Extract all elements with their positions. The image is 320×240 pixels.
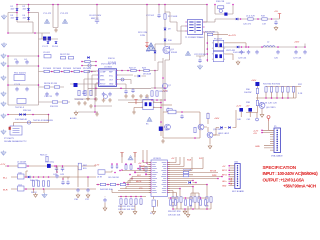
junction: [117, 184, 119, 186]
svg-text:+5V: +5V: [253, 133, 257, 135]
svg-text:D8 4148: D8 4148: [143, 74, 152, 76]
svg-text:+56V: +56V: [251, 80, 257, 82]
ground earth: [1, 113, 6, 118]
junction: [145, 174, 147, 176]
wire bottom rail: [173, 202, 211, 209]
resistor R30b: [256, 100, 258, 105]
svg-text:C10 C11: C10 C11: [44, 96, 53, 98]
junction: [7, 32, 9, 34]
ground earth left: [1, 14, 6, 19]
junction: [160, 102, 162, 104]
pin: [150, 164, 151, 165]
wire ladder left: [256, 86, 258, 113]
power +5V flag: [278, 14, 281, 19]
junction: [81, 71, 83, 73]
pin: [167, 170, 168, 171]
resistor R33: [276, 87, 278, 92]
junction: [245, 46, 247, 48]
capacitor C30: [180, 114, 183, 119]
inductor L4: [168, 110, 176, 114]
wire y112: [78, 111, 98, 113]
junction: [195, 182, 197, 184]
cn2 pin stubs: [229, 166, 235, 186]
wire group B top: [168, 197, 178, 199]
resistor R24: [151, 91, 153, 96]
ground small k: [145, 94, 149, 98]
pin: [116, 79, 117, 80]
svg-text:4.7K: 4.7K: [205, 206, 209, 208]
resistor R57: [180, 197, 182, 202]
wire: [187, 206, 189, 213]
wire secondary return: [204, 32, 206, 56]
svg-text:4007: 4007: [11, 8, 15, 10]
ground small b: [83, 101, 87, 105]
resistor R20: [207, 33, 212, 35]
resistor R47: [183, 171, 188, 173]
thermistor TH1: [17, 99, 26, 104]
wire: [26, 171, 28, 177]
mcu left pin wires: [96, 163, 151, 193]
svg-text:R19: R19: [261, 16, 266, 18]
wire opto right: [225, 43, 246, 60]
junction: [261, 46, 263, 48]
wire grid rung2: [8, 65, 39, 67]
pin: [203, 26, 204, 27]
ground open audio2: [76, 194, 80, 198]
junction: [131, 178, 133, 180]
resistor R13: [78, 90, 80, 95]
capacitor C14: [108, 92, 111, 97]
flag diamond: [256, 118, 259, 121]
junction: [7, 165, 9, 167]
svg-text:R20 FUSE: R20 FUSE: [205, 32, 216, 34]
pin: [167, 162, 168, 163]
junction: [179, 188, 181, 190]
svg-text:+12V: +12V: [236, 106, 242, 108]
junction: [33, 188, 35, 190]
junction: [81, 61, 83, 63]
pin: [167, 172, 168, 173]
resistor R19: [262, 18, 267, 20]
junction: [158, 4, 160, 6]
wire: [134, 75, 146, 77]
svg-text:+56V/ 90mA *4CH: +56V/ 90mA *4CH: [283, 183, 316, 188]
svg-text:Vref COMP VFB: Vref COMP VFB: [101, 63, 117, 66]
wire group C top: [183, 197, 193, 199]
svg-text:R50 R51 R52 R53: R50 R51 R52 R53: [118, 206, 136, 208]
svg-text:R17 100K: R17 100K: [168, 16, 178, 18]
ground column earths: [1, 42, 6, 47]
wire cn1 power drop: [269, 121, 275, 130]
junction: [120, 196, 122, 198]
capacitor C42: [56, 166, 58, 168]
resistor R53: [135, 199, 137, 204]
resistor R63 above rail: [46, 156, 48, 161]
svg-text:D11: D11: [146, 51, 151, 53]
junction: [51, 71, 53, 73]
wire aux winding: [155, 26, 186, 61]
junction: [125, 163, 127, 165]
thermistor TH2: [27, 121, 30, 124]
svg-text:C19: C19: [262, 24, 267, 26]
svg-text:TH2 5D-9 DEGAUSS: TH2 5D-9 DEGAUSS: [33, 119, 53, 122]
ground earth: [1, 101, 6, 106]
chassis cap cluster: [196, 56, 205, 58]
capacitor C23: [240, 50, 243, 55]
junction: [125, 196, 127, 198]
junction: [119, 170, 121, 172]
diode D7: [87, 56, 89, 59]
junction: [130, 196, 132, 198]
wire clamp vertical: [164, 5, 166, 47]
capacitor CX2: [48, 37, 51, 41]
svg-text:+5V: +5V: [138, 163, 142, 165]
svg-text:INPUT : 100-240V AC(50/60Hz): INPUT : 100-240V AC(50/60Hz): [263, 171, 319, 176]
wire row y102: [39, 101, 71, 103]
pin: [167, 190, 168, 191]
svg-text:R38: R38: [246, 102, 251, 104]
svg-text:C23 C24: C23 C24: [238, 58, 247, 60]
junction: [139, 165, 141, 167]
capacitor C19: [274, 20, 277, 25]
ground small f: [102, 98, 106, 102]
resistor R58: [190, 197, 192, 202]
junction: [185, 197, 187, 199]
svg-text:1K 1K: 1K 1K: [31, 192, 37, 194]
pin: [150, 190, 151, 191]
capacitor C34: [61, 180, 64, 185]
wire: [75, 111, 77, 113]
IC right pin wires: [117, 71, 156, 90]
pin: [167, 174, 168, 175]
diode LED2: [229, 126, 231, 129]
diode D13: [236, 18, 238, 21]
wire ladder bottom: [256, 87, 296, 99]
junction: [206, 4, 208, 6]
junction: [43, 176, 45, 178]
resistor R8: [44, 86, 49, 88]
resistor R17: [164, 14, 166, 19]
mcu right pin wires: [168, 157, 223, 196]
svg-text:C36: C36: [74, 199, 79, 201]
wire chain row: [39, 71, 97, 73]
junction: [207, 59, 209, 61]
svg-text:Q7: Q7: [168, 85, 172, 87]
junction: [95, 61, 97, 63]
svg-text:R44 R45 R46: R44 R45 R46: [100, 189, 113, 191]
junction: [164, 99, 166, 101]
transistor Q4: [207, 132, 213, 138]
junction: [127, 184, 129, 186]
svg-text:GND: GND: [222, 185, 227, 187]
resistor R14: [84, 90, 86, 95]
svg-text:+12V: +12V: [94, 165, 100, 167]
wire feedback rail: [160, 99, 162, 136]
wire opto left rail: [206, 35, 208, 63]
resistor R15: [90, 90, 92, 95]
optocoupler PC3: [212, 51, 225, 61]
junction: [94, 105, 96, 107]
wire top row: [8, 114, 49, 116]
pin: [167, 192, 168, 193]
wire: [240, 112, 242, 117]
svg-text:D9: D9: [168, 29, 172, 31]
resistor R60: [198, 197, 200, 202]
junction: [151, 99, 153, 101]
junction: [295, 46, 297, 48]
svg-text:R21 2.2M: R21 2.2M: [138, 32, 147, 34]
resistor R30: [256, 88, 258, 93]
diode D3: [16, 18, 19, 20]
svg-text:LED1 LED2: LED1 LED2: [218, 133, 230, 135]
svg-text:R30: R30: [246, 89, 251, 91]
ground earth: [1, 91, 6, 96]
pin: [203, 31, 204, 32]
junction: [207, 48, 209, 50]
svg-text:SPECIFICATION: SPECIFICATION: [263, 165, 297, 170]
svg-text:ACGND: ACGND: [70, 117, 77, 120]
svg-text:R6 R7 2M: R6 R7 2M: [60, 54, 70, 56]
wire bottom rail: [118, 99, 165, 101]
heatsink triangle: [147, 43, 156, 50]
svg-text:5.1K: 5.1K: [298, 93, 303, 95]
resistor R25: [156, 91, 158, 96]
resistor R6: [60, 57, 65, 59]
ground open right: [183, 210, 187, 214]
svg-text:ISEN: ISEN: [100, 79, 105, 81]
resistor R41: [37, 181, 39, 186]
junction: [135, 196, 137, 198]
junction: [194, 137, 196, 139]
junction: [57, 4, 59, 6]
pin: [150, 192, 151, 193]
svg-text:10K: 10K: [189, 206, 193, 208]
junction: [62, 165, 64, 167]
junction: [56, 171, 58, 173]
svg-text:R47 R48: R47 R48: [183, 170, 192, 172]
diode D15: [255, 82, 259, 86]
svg-text:C1 C2: C1 C2: [42, 46, 49, 48]
ground open audio3: [86, 194, 90, 198]
pin: [167, 178, 168, 179]
diode D14: [237, 46, 239, 49]
wire: [149, 163, 170, 193]
svg-text:KEY2: KEY2: [222, 174, 227, 176]
junction: [139, 70, 141, 72]
resistor R59: [194, 197, 196, 202]
svg-text:IN-R: IN-R: [3, 189, 8, 191]
resistor R22: [131, 69, 136, 71]
svg-text:PWR: PWR: [212, 175, 217, 177]
wire: [105, 171, 112, 173]
diode D16: [20, 113, 22, 116]
svg-text:D10: D10: [168, 40, 173, 42]
svg-text:C7 C8: C7 C8: [14, 84, 21, 86]
svg-text:CY1 472: CY1 472: [43, 13, 52, 15]
wire gate: [155, 62, 163, 71]
pin: [150, 172, 151, 173]
capacitor C15: [124, 89, 127, 94]
chassis triangle 3: [185, 51, 190, 55]
capacitor C12: [82, 90, 85, 95]
wire cn1 top: [246, 113, 257, 119]
junction: [56, 165, 58, 167]
junction: [25, 176, 27, 178]
capacitor C27: [294, 50, 297, 55]
junction: [207, 42, 209, 44]
junction: [192, 180, 194, 182]
pin: [185, 21, 186, 22]
junction: [277, 46, 279, 48]
connector CN2: [235, 164, 240, 189]
capacitor C35: [66, 180, 69, 185]
svg-text:SDA: SDA: [187, 159, 192, 162]
ground open r1: [274, 26, 278, 30]
junction: [248, 46, 250, 48]
wire group A top: [118, 197, 146, 211]
svg-text:4007: 4007: [11, 17, 15, 19]
svg-text:R4 560K: R4 560K: [73, 68, 82, 70]
ground earth: [1, 53, 6, 58]
ground small g: [108, 98, 112, 102]
capacitor C10: [45, 92, 48, 97]
junction: [282, 97, 284, 99]
svg-text:+5V: +5V: [246, 106, 250, 108]
junction: [271, 97, 273, 99]
svg-text:R18 C18: R18 C18: [216, 1, 225, 3]
pin: [167, 184, 168, 185]
junction: [7, 65, 9, 67]
mcu left cluster caps: [111, 164, 113, 169]
wire opto left: [128, 103, 143, 111]
wire bus to primary: [205, 5, 208, 23]
wire row y87: [39, 86, 65, 88]
junction: [38, 176, 40, 178]
capacitor C9: [44, 55, 51, 58]
resistor R65: [210, 197, 212, 202]
svg-text:PC2 817: PC2 817: [214, 39, 223, 41]
svg-text:IN-L: IN-L: [3, 177, 8, 179]
junction: [206, 184, 208, 186]
ground small below Y caps: [54, 28, 58, 32]
wire bridge right vertical: [28, 5, 30, 23]
capacitor C32: [47, 164, 51, 168]
pin: [116, 74, 117, 75]
inductor L3: [248, 18, 253, 20]
resistor R48: [183, 174, 188, 176]
wire opto right: [153, 103, 161, 108]
wire grid rung1: [8, 55, 39, 57]
svg-text:R2 560K: R2 560K: [53, 68, 62, 70]
resistor R5: [84, 70, 89, 72]
resistor R35: [287, 87, 289, 92]
capacitor C11: [55, 92, 58, 97]
wire q pair: [204, 113, 220, 145]
svg-text:+56V: +56V: [294, 42, 300, 44]
junction: [130, 163, 132, 165]
svg-text:C27 C28: C27 C28: [293, 58, 302, 60]
junction: [97, 184, 99, 186]
capacitor C40: [239, 108, 243, 112]
svg-text:D16 1N4148: D16 1N4148: [15, 119, 28, 121]
svg-text:+12V: +12V: [253, 130, 259, 132]
svg-text:PT1 MZ73: PT1 MZ73: [4, 138, 15, 140]
capacitor C8: [25, 87, 28, 92]
junction: [160, 107, 162, 109]
diode D11 aux: [154, 51, 157, 53]
svg-text:KEY BOARD: KEY BOARD: [232, 190, 245, 193]
resistor R57: [184, 200, 186, 205]
svg-text:18OHM DEGAUSS PTC: 18OHM DEGAUSS PTC: [4, 140, 27, 143]
wire: [78, 166, 88, 187]
svg-text:R10 R11: R10 R11: [50, 106, 59, 108]
svg-text:R3 560K: R3 560K: [63, 68, 72, 70]
svg-text:R63 4.7: R63 4.7: [40, 155, 48, 157]
wire bridge left vertical: [16, 5, 18, 23]
ground small c: [89, 104, 93, 108]
svg-text:R39 100: R39 100: [23, 110, 32, 112]
svg-text:MKP X2: MKP X2: [91, 18, 99, 20]
ground open b1: [103, 207, 107, 211]
wire grid rung4: [8, 104, 39, 106]
sense resistors: [151, 87, 165, 89]
inductor L2: [263, 46, 275, 48]
ground earth mid: [197, 64, 202, 69]
junction: [304, 46, 306, 48]
ground small opto: [132, 110, 136, 114]
pin: [150, 176, 151, 177]
svg-text:10K 10K 10K 10K: 10K 10K 10K 10K: [118, 209, 135, 211]
diode D19: [189, 181, 191, 184]
pin: [150, 184, 151, 185]
pin: [97, 74, 98, 75]
connector CN1: [274, 128, 281, 153]
chassis triangle 2: [62, 19, 67, 23]
inductor L1: [88, 64, 91, 67]
junction: [172, 208, 174, 210]
resistor R56: [176, 197, 178, 202]
wire Q1 source down: [165, 55, 170, 100]
ground open mid: [236, 61, 240, 65]
svg-text:C43: C43: [60, 174, 65, 176]
capacitor C16: [131, 88, 134, 93]
resistor R34: [281, 87, 283, 92]
wire grid left vertical: [7, 56, 9, 105]
diode D18: [28, 176, 30, 179]
resistor R55: [172, 197, 174, 202]
resistor R21: [146, 5, 148, 43]
svg-text:C22 222 1KV: C22 222 1KV: [194, 54, 207, 56]
junction: [81, 65, 83, 67]
ground open b4: [152, 210, 156, 214]
junction: [156, 99, 158, 101]
svg-text:VGA CABLE: VGA CABLE: [271, 155, 283, 158]
junction: [25, 188, 27, 190]
wire audio R: [11, 188, 96, 190]
svg-text:R55 R57 R59: R55 R57 R59: [168, 211, 181, 213]
capacitor C4: [25, 60, 28, 65]
inductor L5: [18, 164, 26, 168]
ground small a: [77, 101, 81, 105]
svg-text:C45 C46 R61: C45 C46 R61: [108, 177, 119, 179]
junction: [146, 162, 148, 164]
resistor R54: [140, 199, 142, 204]
capacitor C28: [303, 50, 306, 55]
inductor bead: [121, 78, 124, 81]
svg-text:GND: GND: [255, 146, 260, 148]
svg-text:R22 47: R22 47: [129, 67, 137, 69]
cn1 pin wires: [262, 130, 274, 150]
